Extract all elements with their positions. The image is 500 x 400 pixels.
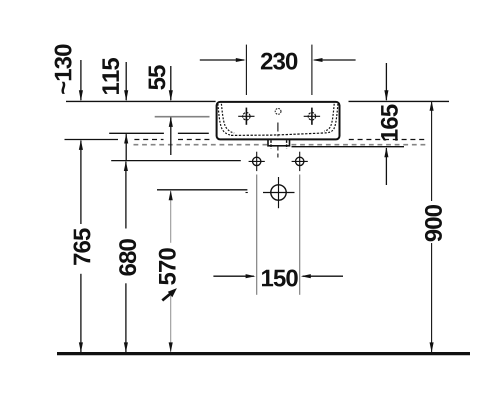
dim ~130: arrow line xyxy=(80,60,82,100)
overflow hole xyxy=(275,109,281,115)
dim 165: upper arrow xyxy=(385,63,387,100)
floor line xyxy=(57,352,470,355)
gray dashed line E left xyxy=(134,144,268,146)
dim 165: label (rotated) xyxy=(381,105,398,141)
dim 115: arrow line xyxy=(125,62,127,100)
dim 150: label xyxy=(262,270,298,287)
dim 165: lower arrow xyxy=(385,148,387,185)
line F (165 lower reference) xyxy=(292,146,405,148)
line B (570 reference / drain height) xyxy=(157,189,247,191)
dim 55: arrow line xyxy=(170,66,172,100)
dim 765: label (rotated) xyxy=(73,228,90,265)
mounting hole centerline left (gray) xyxy=(256,175,258,295)
line C (115 reference) xyxy=(109,132,164,134)
drain hidden edges (dashed) xyxy=(270,140,272,149)
drain fitting box xyxy=(268,140,290,146)
dim 765 line xyxy=(80,141,82,225)
dim 115: label (rotated) xyxy=(102,58,119,94)
dim 150: arrow lines xyxy=(213,275,253,277)
gray dashed line E right xyxy=(292,144,426,146)
dim 55 lower arrow (points up to gray ledge) xyxy=(170,118,172,156)
basin inner wall left (dotted) xyxy=(218,104,231,135)
dim 570: label (rotated) xyxy=(159,248,176,285)
gray ledge line (55 reference) xyxy=(155,116,210,118)
dim 115 lower arrow (points up to line C) xyxy=(125,134,127,160)
top reference line right segment xyxy=(349,100,450,102)
dim 900: label (rotated) xyxy=(425,205,442,241)
line G (680 reference / mounting holes) xyxy=(111,160,241,162)
mounting hole right xyxy=(292,152,308,171)
dim 230: arrow lines xyxy=(200,59,244,61)
line D dashed right xyxy=(349,139,426,141)
top reference line left segment xyxy=(66,100,216,102)
center dash-dot line xyxy=(277,123,279,158)
dim 680: label (rotated) xyxy=(119,239,136,275)
line D solid (130 reference) xyxy=(65,139,119,141)
washbasin outline (side view) xyxy=(217,102,340,139)
drain hole circle xyxy=(246,177,295,208)
dim 680 line xyxy=(125,162,127,229)
basin floor (dotted) xyxy=(231,133,326,136)
mounting hole centerline right (gray) xyxy=(299,175,301,295)
dim 900 line xyxy=(431,102,433,201)
dim 570: leader arrow xyxy=(162,293,171,300)
faucet hole left xyxy=(238,108,254,125)
faucet hole right xyxy=(304,108,320,125)
dim 230: extension lines xyxy=(245,45,247,95)
basin inner wall right (dotted) xyxy=(326,104,338,133)
dim ~130: label (rotated) xyxy=(55,45,72,94)
dim 55: label (rotated) xyxy=(149,65,166,89)
dim 230: label xyxy=(261,53,297,70)
dim 570 line (gray) xyxy=(170,191,172,243)
line D dashed left xyxy=(134,139,163,141)
mounting hole left xyxy=(249,152,265,171)
